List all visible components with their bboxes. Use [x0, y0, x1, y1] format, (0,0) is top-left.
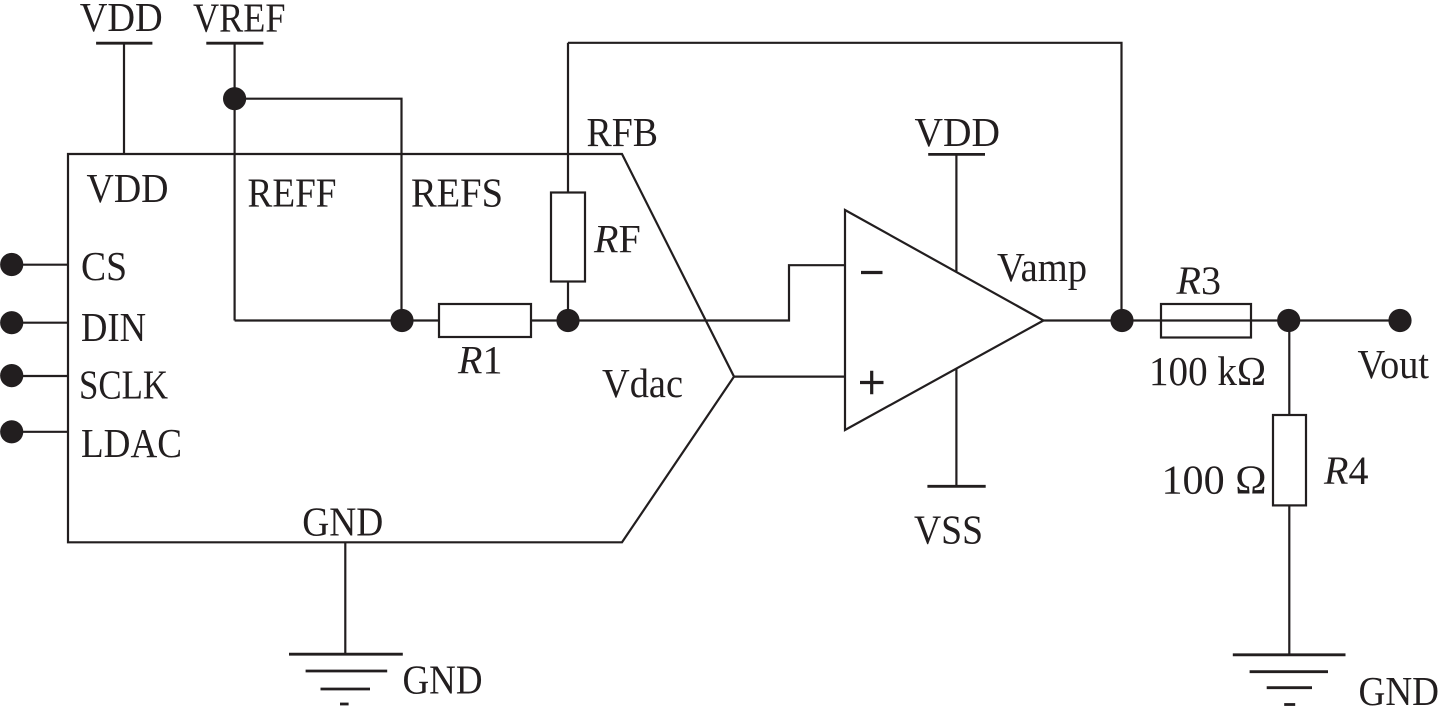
svg-text:VDD: VDD — [80, 0, 163, 40]
svg-text:Vdac: Vdac — [602, 360, 683, 406]
svg-text:REFS: REFS — [411, 170, 503, 216]
svg-text:Vamp: Vamp — [997, 244, 1087, 290]
svg-text:RFB: RFB — [587, 109, 659, 155]
svg-text:REFF: REFF — [248, 170, 337, 216]
svg-text:R1: R1 — [457, 338, 502, 383]
svg-text:GND: GND — [403, 657, 483, 703]
svg-text:R4: R4 — [1323, 448, 1368, 493]
svg-text:VDD: VDD — [915, 109, 1001, 155]
svg-text:GND: GND — [302, 499, 383, 545]
svg-text:DIN: DIN — [81, 304, 146, 350]
svg-text:100 kΩ: 100 kΩ — [1149, 348, 1266, 394]
svg-text:GND: GND — [1359, 668, 1439, 714]
svg-text:Vout: Vout — [1358, 341, 1430, 387]
svg-text:R3: R3 — [1176, 258, 1221, 303]
svg-text:VDD: VDD — [87, 165, 169, 211]
svg-text:100 Ω: 100 Ω — [1162, 457, 1267, 503]
svg-text:VSS: VSS — [914, 507, 983, 553]
svg-text:CS: CS — [81, 243, 127, 289]
svg-text:LDAC: LDAC — [81, 420, 182, 466]
svg-text:RF: RF — [593, 217, 641, 262]
svg-text:SCLK: SCLK — [79, 361, 168, 407]
svg-text:VREF: VREF — [193, 0, 286, 40]
